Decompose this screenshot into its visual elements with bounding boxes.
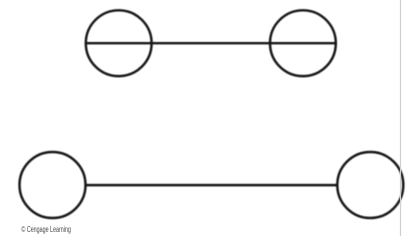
bottom-right circle	[337, 152, 403, 218]
bottom connecting rod	[85, 184, 337, 186]
top-right circle with diameter line	[270, 10, 336, 76]
bottom-left circle	[20, 152, 86, 218]
top horizontal line through both barbell circles	[86, 42, 336, 44]
top-left circle with diameter line	[86, 10, 152, 76]
svg-text:© Cengage Learning: © Cengage Learning	[21, 225, 71, 234]
faint page rule at right edge	[400, 0, 402, 236]
